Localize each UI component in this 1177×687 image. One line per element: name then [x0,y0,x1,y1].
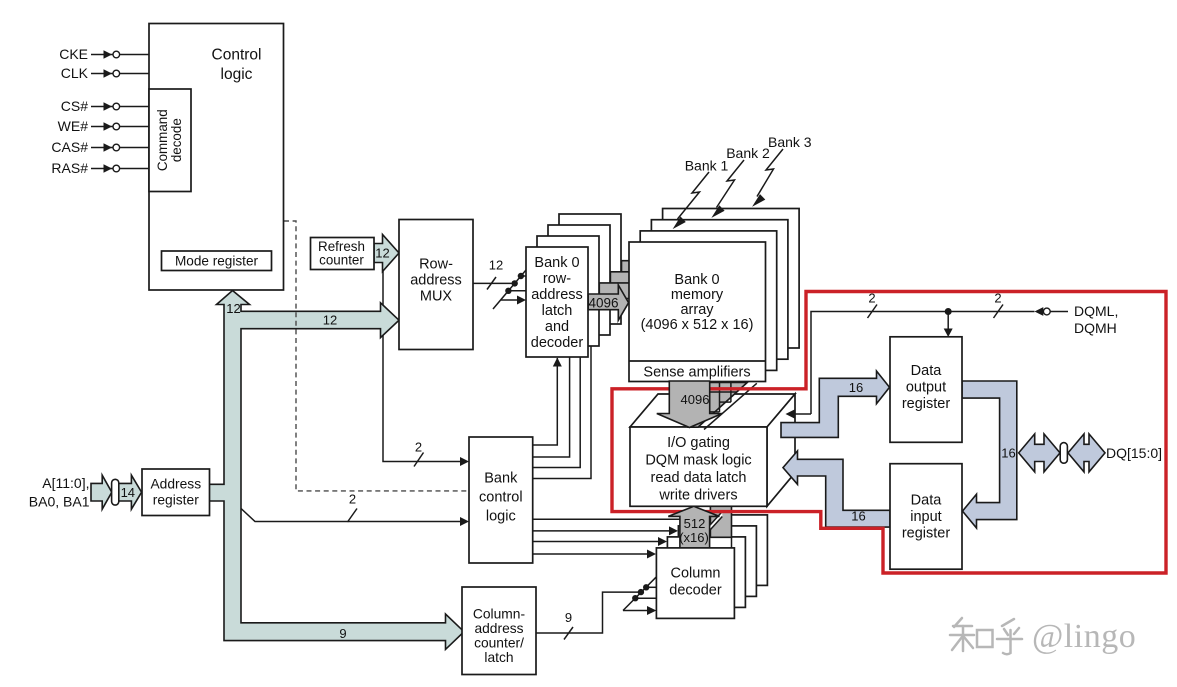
block Bank 1 memory array [640,231,777,371]
svg-text:12: 12 [226,301,240,316]
svg-text:counter: counter [319,253,364,268]
svg-text:4096: 4096 [681,392,710,407]
block Bank 2 row-address latch [548,225,610,335]
node Bank 1 label and bolt arrow [673,158,729,230]
svg-text:MUX: MUX [420,289,453,305]
svg-text:16: 16 [849,380,863,395]
svg-text:latch: latch [542,303,573,319]
svg-text:4096: 4096 [588,296,618,311]
svg-text:Row-: Row- [419,257,453,273]
svg-text:12: 12 [323,313,337,328]
svg-text:2: 2 [868,291,875,306]
svg-text:register: register [902,396,951,412]
block Column decoder bank1 [667,537,745,608]
block Bank control logic [469,437,533,563]
wire RAS# input [91,164,149,172]
wire bank control logic outputs to row-address latch stack [533,324,591,478]
wire column-address 9 from counter to column decoders (diagonal tap with dots) [537,577,657,640]
wire CAS# input [91,143,149,151]
block Bank 3 row-address latch (backmost) [559,214,621,324]
block I/O gating DQM mask logic front face [630,427,767,506]
svg-text:counter/: counter/ [474,636,524,651]
svg-text:logic: logic [221,66,253,83]
svg-text:CAS#: CAS# [51,139,88,155]
red highlight outline [612,292,1166,574]
svg-text:Sense amplifiers: Sense amplifiers [643,365,750,381]
block Command decode [149,89,191,192]
svg-text:Bank 0: Bank 0 [534,255,579,271]
svg-text:memory: memory [671,287,724,303]
bus gray 4096 arrow latch to bank3 array [622,252,662,287]
svg-text:address: address [531,287,583,303]
svg-text:Mode register: Mode register [175,254,259,269]
block Column decoder bank3 (backmost) [689,515,767,586]
bus DQ bidirectional arrow inner [1019,434,1060,472]
block Refresh counter [311,238,375,270]
svg-text:decode: decode [169,118,184,162]
wire DQML/DQMH mask line [786,291,1069,419]
svg-text:BA0, BA1: BA0, BA1 [29,494,90,510]
block I/O gating 3D box right face [767,394,795,506]
svg-text:Command: Command [155,109,170,171]
svg-text:2: 2 [994,291,1001,306]
block Sense amplifiers strip [629,360,766,362]
svg-text:Bank 0: Bank 0 [674,272,719,288]
svg-text:output: output [906,380,946,396]
block Data output register [890,337,962,443]
wire CLK input [91,69,149,77]
svg-text:2: 2 [349,492,356,507]
block Address register [142,469,210,516]
svg-text:WE#: WE# [58,118,89,134]
bus 16 read path from I/O gating to data output register [781,371,890,437]
svg-text:I/O gating: I/O gating [667,435,730,451]
wire WE# input [91,122,149,130]
svg-text:write drivers: write drivers [658,488,737,504]
block Control logic [149,24,284,291]
bus gray 4096 down arrow from sense amplifiers into I/O gating [657,381,722,428]
svg-text:(4096 x 512 x 16): (4096 x 512 x 16) [641,317,754,333]
svg-text:14: 14 [121,485,135,500]
svg-text:Column: Column [671,566,721,582]
svg-text:input: input [910,509,941,525]
svg-text:Control: Control [212,47,262,64]
node Bank 3 label and bolt arrow [752,134,812,207]
svg-text:and: and [545,319,569,335]
svg-text:Data: Data [911,493,943,509]
svg-text:decoder: decoder [669,583,722,599]
svg-text:DQMH: DQMH [1074,320,1117,336]
svg-text:CS#: CS# [61,98,88,114]
svg-text:decoder: decoder [531,335,584,351]
bus gray band from I/O gating down to back column decoders [710,506,731,537]
svg-text:Address: Address [150,476,201,491]
svg-text:DQ[15:0]: DQ[15:0] [1106,445,1162,461]
wire CS# input [91,102,149,110]
svg-text:CLK: CLK [61,65,89,81]
svg-text:Data: Data [911,363,943,379]
block Bank 1 row-address latch [537,236,599,346]
wire dashed mode path from control logic to bank control logic [284,221,468,491]
svg-text:address: address [410,273,462,289]
node Bank 2 label and bolt arrow [711,145,770,218]
pin pill on DQ pads [1060,443,1067,464]
block Row-address MUX [399,220,473,350]
svg-text:array: array [680,302,714,318]
bus gray 4096 arrow latch to bank2 array [610,263,650,298]
bus 16 from data output register to DQ pads and down to data input register [962,381,1017,528]
svg-text:RAS#: RAS# [51,160,88,176]
block Bank 2 memory array [651,220,788,360]
bus gray 4096 arrow from Bank 0 latch to Bank 0 memory array [588,285,628,320]
bus: refresh counter 12 arrow into row MUX [374,235,399,272]
block Column decoder bank2 [678,526,756,597]
svg-text:CKE: CKE [59,46,88,62]
wire bank-select 2-bit tap from refresh bus down to bank control logic [383,266,469,467]
block I/O gating 3D box top face [630,394,795,427]
bus: main teal address bus network (12 up into control logic, 12 to row MUX, link from address register, 9 to column-address counter) [209,291,464,650]
svg-text:Bank 3: Bank 3 [768,134,812,150]
svg-text:row-: row- [543,271,571,287]
pin pill on address input [112,479,119,505]
svg-text:A[11:0],: A[11:0], [42,475,89,491]
svg-text:9: 9 [565,610,572,625]
svg-text:2: 2 [415,440,422,455]
wire CKE input [91,50,149,58]
bus: external address input arrow (A[11:0], BA0, BA1) [91,475,112,509]
svg-text:512: 512 [684,516,706,531]
svg-text:16: 16 [851,509,865,524]
svg-text:logic: logic [486,509,516,525]
svg-text:latch: latch [484,650,513,665]
block Bank 0 row-address latch and decoder [526,247,588,357]
bus gray zigzag arrow from other banks sense amps into I/O gating [704,383,757,429]
svg-text:Bank: Bank [484,471,518,487]
svg-text:register: register [153,493,199,508]
svg-text:control: control [479,490,523,506]
svg-text:DQM mask logic: DQM mask logic [645,453,751,469]
bus gray 512 (x16) arrow from column decoder up into I/O gating [668,506,719,548]
block Data input register [890,464,962,570]
bus 16 write path from data input register to I/O gating [783,451,890,527]
bus DQ bidirectional arrow outer [1068,434,1105,472]
wire bank-address 2-bit tap from address bus to bank control logic [241,492,469,527]
svg-text:address: address [474,621,523,636]
svg-text:12: 12 [375,246,389,261]
svg-text:9: 9 [339,626,346,641]
svg-text:Column-: Column- [473,607,525,622]
svg-text:register: register [902,526,951,542]
svg-text:DQML,: DQML, [1074,303,1118,319]
svg-text:Bank 1: Bank 1 [685,158,729,174]
svg-text:@lingo: @lingo [1032,618,1136,655]
svg-text:12: 12 [489,258,503,273]
svg-text:16: 16 [1001,446,1015,461]
block Bank 3 memory array (backmost) [663,209,800,349]
block Mode register [162,251,272,271]
block Column decoder front [656,548,734,619]
svg-text:read data latch: read data latch [651,470,747,486]
watermark zhihu @lingo [950,618,1022,654]
wire row-address 12 from MUX to bank row-address latches (diagonal tap with dots) [473,258,526,310]
block Bank 0 memory array [629,242,766,382]
block Column-address counter/latch [462,587,536,675]
bus gray 4096 arrow latch to bank1 array [599,274,639,309]
svg-text:Bank 2: Bank 2 [726,145,770,161]
svg-text:(x16): (x16) [679,530,709,545]
wire bank control logic outputs to column decoder stack [533,519,680,558]
bus: 14 arrow from pin into address register [119,475,142,509]
